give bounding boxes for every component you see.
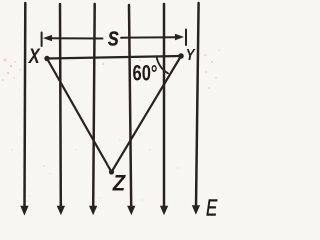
field line 6 arrowhead (192, 205, 200, 215)
svg-text:E: E (206, 195, 218, 221)
field line 4 arrowhead (127, 206, 135, 215)
field line 5 (163, 4, 166, 207)
node X dot (44, 56, 49, 61)
dimension line s: left segment (50, 37, 103, 39)
field line 2 arrowhead (57, 206, 65, 215)
field line 1 (23, 3, 26, 207)
svg-text:60°: 60° (133, 61, 158, 86)
dimension line s: right segment (121, 36, 176, 39)
wire: side XZ of triangle (47, 59, 112, 173)
scan speckle noise (2, 49, 220, 201)
field line 5 arrowhead (160, 206, 168, 215)
dimension line s: left tick (41, 33, 43, 47)
field line 3 (93, 4, 95, 207)
svg-text:Y: Y (186, 47, 196, 64)
svg-text:X: X (28, 44, 41, 67)
angle arc at Y (157, 56, 169, 73)
wire: side YZ of triangle (112, 56, 182, 172)
node Z dot (109, 169, 114, 174)
field line 2 (59, 4, 62, 207)
svg-text:s: s (108, 22, 120, 52)
field line 3 arrowhead (89, 206, 97, 215)
dimension line s: right arrowhead (175, 34, 184, 40)
svg-text:Z: Z (112, 172, 126, 196)
node Y dot (178, 53, 184, 59)
paper background (0, 0, 224, 224)
wire: side XY of triangle (47, 56, 181, 59)
dimension line s: right tick (185, 30, 187, 46)
field line 6 (196, 3, 199, 207)
dimension line s: left arrowhead (43, 35, 52, 41)
field line 1 arrowhead (20, 206, 28, 216)
field line 4 (129, 5, 131, 207)
